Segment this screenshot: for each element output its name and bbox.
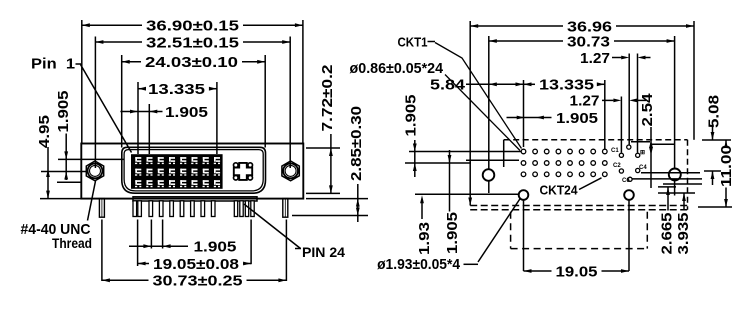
svg-text:⊞: ⊞: [640, 150, 645, 156]
ext line 36.90 right: [302, 20, 304, 144]
svg-text:Thread: Thread: [52, 235, 92, 251]
svg-text:3.935: 3.935: [675, 213, 692, 255]
dim 2.665: [667, 187, 669, 211]
ext line 24.03 right: [264, 55, 266, 148]
svg-text:7.72±0.2: 7.72±0.2: [319, 65, 336, 132]
outline step left vertical: [503, 140, 505, 167]
dim dim 30.73: [489, 40, 563, 42]
ext flange bottom left: [40, 198, 81, 200]
analog contact: [248, 163, 253, 168]
analog contact: [234, 175, 239, 180]
ref line top C cluster: [631, 141, 650, 143]
ext pin col1 bottom: [137, 220, 139, 267]
contact grid 8x3: [131, 154, 223, 189]
svg-text:PIN 24: PIN 24: [302, 244, 345, 260]
svg-text:24.03±0.10: 24.03±0.10: [145, 54, 238, 71]
dim dim 32.51: [95, 41, 142, 43]
pin header bar: [133, 197, 257, 201]
mounting hole left ø1.93: [483, 169, 495, 181]
dim dim 36.90: [82, 24, 142, 26]
analog contact: [248, 175, 253, 180]
ext col8: [604, 80, 606, 149]
svg-text:C1: C1: [611, 148, 619, 154]
svg-text:ø1.93±0.05*4: ø1.93±0.05*4: [377, 256, 461, 273]
ext line 13.335 / pin col1: [137, 82, 139, 154]
ext shroud bottom right: [306, 192, 340, 194]
ext row1 footprint: [409, 151, 521, 153]
board lock left: [99, 199, 104, 218]
leader ø1.93: [464, 263, 479, 265]
dim line 1.905 lower-left: [449, 150, 451, 212]
ext line 32.51 left: [94, 37, 96, 169]
dim 13.335 right: [524, 83, 536, 85]
lock hole right ø1.93: [624, 190, 634, 200]
ext row3 left: [57, 181, 81, 183]
analog cross slot: [234, 163, 252, 180]
ext row1 left: [58, 158, 124, 160]
dim dim 19.05±0.08: [138, 263, 149, 265]
svg-text:1.93: 1.93: [416, 222, 433, 255]
dim 1.27 mid: [602, 99, 613, 101]
footprint outline top dashed: [504, 139, 688, 141]
svg-text:1.905: 1.905: [194, 239, 237, 256]
svg-text:C4: C4: [639, 165, 647, 171]
svg-text:19.05±0.08: 19.05±0.08: [153, 256, 239, 273]
dim dim 19.05: [524, 270, 552, 272]
ext C col right: [637, 54, 639, 153]
dim dim 36.96: [470, 25, 563, 27]
dim 1.905 col pitch: [507, 117, 552, 119]
ext 11.00 bottom: [698, 206, 732, 208]
svg-text:13.335: 13.335: [148, 81, 205, 98]
leader ø0.86: [445, 75, 520, 151]
svg-text:2.665: 2.665: [659, 213, 676, 255]
leader CKT1: [435, 43, 522, 149]
ext pin col3 bottom: [162, 220, 164, 249]
svg-text:19.05: 19.05: [556, 263, 598, 280]
center line right mounting hole: [641, 172, 700, 174]
signal pins: [133, 201, 137, 217]
ref line below holes: [632, 178, 702, 180]
ext 36.96 right: [693, 21, 695, 140]
shroud outer: [122, 147, 266, 193]
svg-text:1.905: 1.905: [165, 104, 208, 121]
analog pad holes C1-C5: [627, 145, 631, 149]
dim 1.27 top: [612, 57, 621, 59]
ref 2.665: [658, 186, 676, 188]
ext 19.05 right: [628, 201, 630, 272]
ext pin tip right: [292, 215, 368, 217]
dim dim 24.03: [122, 61, 141, 63]
ext lock right: [285, 220, 287, 282]
svg-text:2.85±0.30: 2.85±0.30: [348, 106, 365, 181]
shroud inner: [124, 150, 263, 191]
ext outline top right: [702, 139, 731, 141]
ext below right mounting hole: [674, 181, 676, 196]
ref line: [650, 143, 674, 145]
svg-text:CKT24: CKT24: [540, 183, 579, 198]
analog contact: [234, 163, 239, 168]
svg-text:CKT1: CKT1: [398, 35, 428, 50]
analog pins: [234, 201, 237, 217]
ext col1: [523, 80, 525, 147]
ext line 13.335 right: [216, 82, 218, 154]
screw hole hex nut left: [86, 161, 103, 181]
leader #4-40: [88, 181, 96, 221]
svg-text:5.08: 5.08: [706, 95, 723, 128]
leader CKT24: [579, 178, 602, 190]
footprint outline bottom dashed 2: [470, 209, 687, 211]
svg-text:ø0.86±0.05*24: ø0.86±0.05*24: [350, 60, 444, 77]
svg-text:13.335: 13.335: [539, 77, 594, 94]
ext line 1.905 col2: [148, 104, 150, 154]
svg-text:11.00: 11.00: [718, 145, 735, 187]
footprint outline right dashed: [687, 140, 689, 210]
svg-text:30.73: 30.73: [567, 33, 610, 50]
dim 1.905 bottom: [129, 245, 188, 247]
ext line 24.03 left: [121, 55, 123, 148]
leader PIN 24: [244, 204, 301, 249]
dim line 1.93: [421, 201, 423, 219]
svg-text:1.905: 1.905: [403, 95, 420, 137]
dim 1.905 pin pitch top: [120, 111, 162, 113]
svg-text:30.73±0.25: 30.73±0.25: [153, 273, 243, 290]
lock hole left ø1.93: [519, 190, 529, 200]
body overhang outline left dashed: [510, 212, 512, 249]
ext 5.08 bottom: [704, 170, 721, 172]
mounting hole right ø1.93: [669, 169, 681, 181]
ref 3.935: [658, 192, 695, 194]
ext line 36.90 left: [81, 20, 83, 144]
dim dim 13.335: [138, 88, 144, 90]
ext C col left: [620, 97, 622, 153]
svg-text:C2: C2: [613, 163, 621, 169]
ext lock left: [101, 220, 103, 282]
svg-text:32.51±0.15: 32.51±0.15: [146, 34, 239, 51]
body overhang outline right dashed: [646, 212, 648, 249]
outline step horizontal: [466, 159, 519, 161]
svg-text:2.54: 2.54: [639, 93, 656, 127]
svg-text:36.90±0.15: 36.90±0.15: [146, 18, 239, 35]
ext flange bottom right: [306, 198, 368, 200]
svg-text:Pin 1: Pin 1: [31, 55, 75, 72]
svg-text:1.905: 1.905: [556, 110, 598, 127]
leader Pin 1: [76, 63, 82, 65]
svg-text:1.27: 1.27: [570, 93, 600, 110]
footprint outline bottom dashed 1: [470, 205, 687, 207]
ext shroud top right: [306, 147, 340, 149]
ext row2 footprint: [405, 162, 471, 164]
footprint outline left / ext 36.96: [469, 21, 471, 206]
ext 19.05 left: [523, 201, 525, 272]
hole grid CKT1..CKT24: [521, 149, 526, 154]
svg-text:5.84: 5.84: [430, 77, 466, 94]
ext lock hole row left: [415, 193, 519, 195]
svg-text:1.27: 1.27: [580, 50, 610, 67]
svg-text:1.905: 1.905: [444, 212, 461, 254]
ext 30.73 left / mounting hole: [488, 36, 490, 169]
ext pin col2 bottom: [150, 220, 152, 249]
ref line 184: [663, 183, 702, 185]
svg-text:1.905: 1.905: [55, 91, 72, 133]
dim dim 30.73±0.25: [102, 279, 149, 281]
board lock right: [283, 199, 288, 218]
svg-text:C6: C6: [622, 178, 630, 184]
ext 30.73 right / mounting hole: [674, 36, 676, 168]
ext line 32.51 right: [289, 37, 291, 169]
body overhang outline bottom dashed: [511, 248, 648, 250]
connector flange outline: [81, 144, 303, 199]
ext center row left: [41, 171, 88, 173]
screw hole hex nut right: [282, 161, 299, 181]
ext last pin bottom: [250, 220, 252, 265]
dim 3.935: [683, 193, 685, 211]
svg-text:4.95: 4.95: [36, 115, 53, 148]
ext below left mounting hole: [488, 181, 490, 193]
ext C col mid: [628, 54, 630, 145]
